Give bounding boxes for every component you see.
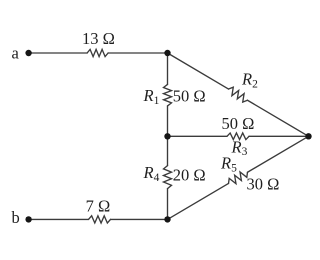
wire: terminal b to 7-ohm resistor — [29, 218, 89, 220]
node: middle junction — [164, 133, 170, 139]
wire: R3 to right node — [249, 135, 309, 137]
node: terminal a dot — [25, 50, 31, 56]
resistor R4 20 Ohm (vertical) — [164, 166, 172, 189]
wire: terminal a to 13-ohm resistor — [29, 52, 88, 54]
svg-text:R4: R4 — [143, 163, 160, 184]
resistor 7 Ohm (series, terminal b branch) — [89, 216, 111, 223]
wire: R5 to right node (diagonal) — [247, 136, 308, 172]
node: terminal b dot — [25, 216, 31, 222]
wire: R2 to right node (diagonal) — [247, 100, 308, 136]
node: top junction — [164, 50, 170, 56]
wire: R1 to middle node — [167, 106, 169, 136]
svg-text:R5: R5 — [220, 154, 237, 175]
wire: top node down to R1 — [167, 53, 169, 84]
wire: middle node to R3 — [168, 135, 228, 137]
wire: R4 to bottom node — [167, 189, 169, 220]
resistor R1 50 Ohm (vertical) — [164, 84, 172, 106]
svg-text:b: b — [12, 208, 20, 227]
wire: bottom node to R5 (diagonal) — [168, 183, 229, 219]
node: bottom junction — [164, 216, 170, 222]
resistor 13 Ohm (series, terminal a branch) — [87, 49, 108, 56]
resistor R3 50 Ohm (middle horizontal) — [227, 133, 249, 140]
wire: top node to R2 (diagonal) — [168, 53, 229, 89]
svg-text:50 Ω: 50 Ω — [173, 87, 206, 106]
resistor R5 30 Ohm (diagonal lower branch) — [229, 172, 248, 184]
svg-text:30 Ω: 30 Ω — [247, 175, 280, 194]
svg-text:50 Ω: 50 Ω — [222, 114, 255, 133]
svg-text:7 Ω: 7 Ω — [86, 197, 111, 216]
resistor R2 (diagonal upper branch) — [229, 87, 248, 102]
svg-text:R1: R1 — [143, 86, 160, 107]
node: right junction — [305, 133, 311, 139]
svg-text:R2: R2 — [241, 70, 258, 91]
svg-text:20 Ω: 20 Ω — [173, 166, 206, 185]
wire: middle node down to R4 — [167, 136, 169, 165]
svg-text:13 Ω: 13 Ω — [82, 29, 115, 48]
wire: 7-ohm resistor to bottom node — [111, 218, 168, 220]
svg-text:R3: R3 — [231, 137, 248, 158]
svg-text:a: a — [12, 43, 20, 62]
wire: 13-ohm resistor to top node — [108, 52, 167, 54]
